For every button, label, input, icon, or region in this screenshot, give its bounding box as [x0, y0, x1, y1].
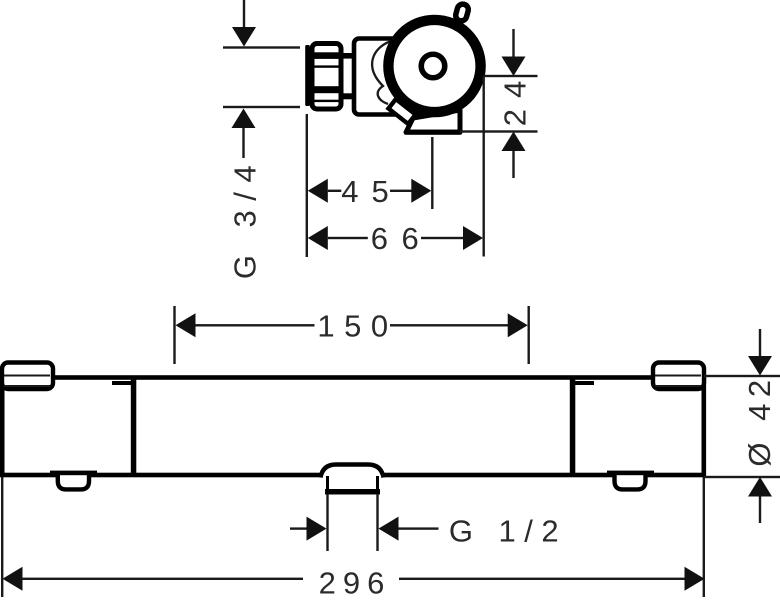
G1/2 stem right [399, 527, 439, 529]
dim 150 ext line left [173, 306, 175, 364]
right cap [653, 363, 704, 390]
outlet spout (side view) [406, 110, 460, 132]
dim 45 arrow right [411, 179, 431, 203]
ext line left of 45/66 [306, 114, 308, 257]
svg-text:296: 296 [319, 565, 392, 600]
outlet bottom thick edge [405, 130, 462, 135]
dial lever stub [454, 3, 469, 22]
dim 24 arrow up [502, 132, 526, 152]
dim 296 arrow right [685, 567, 705, 591]
svg-text:G 1/2: G 1/2 [449, 514, 567, 549]
dim 296 ext line left [1, 477, 3, 597]
bar body [2, 378, 704, 476]
dim 150 stem left [196, 324, 315, 326]
G1/2 ext line right [376, 494, 378, 551]
grip scallop curves [372, 41, 391, 104]
dim 24 stem bottom [512, 151, 514, 178]
ext line below outlet [431, 137, 433, 209]
dim G3/4 ext line top [223, 46, 300, 48]
dim G3/4 arrow down [232, 27, 256, 47]
outlet below box bottom [325, 489, 380, 495]
dim 45 arrow left [308, 179, 328, 203]
left divider [131, 377, 137, 475]
left cap [2, 363, 53, 390]
dim 66 stem left [328, 237, 368, 239]
dim 296 stem left [23, 578, 304, 580]
left foot [58, 471, 89, 489]
dim 66 arrow right [463, 226, 483, 250]
outlet below box left side [326, 476, 329, 490]
dim G3/4 stem bottom [242, 128, 244, 158]
bar bottom edge over left foot [50, 471, 97, 476]
svg-text:Ø 42: Ø 42 [742, 373, 777, 466]
union nut body [312, 44, 341, 110]
dim 150 ext line right [528, 306, 530, 364]
dim 296 stem right [399, 578, 685, 580]
G1/2 arrow right-pointing [307, 517, 327, 541]
union nut flange [305, 45, 310, 106]
nut-body stub bottom [344, 93, 354, 99]
stop tab [388, 99, 415, 124]
dim 150 arrow right [508, 313, 528, 337]
right foot [615, 471, 646, 489]
union nut thin line 1 [313, 65, 341, 67]
left cap inner line 2 [4, 385, 50, 387]
bar bottom edge over right foot [607, 471, 654, 476]
dim 296 ext line right [703, 477, 705, 597]
union nut band 2 [313, 86, 341, 93]
dim 150 stem right [390, 324, 509, 326]
dia42 top ext line [704, 375, 780, 377]
dim 150 arrow left [176, 313, 196, 337]
G1/2 ext line left [326, 494, 328, 551]
outlet dome stroke [321, 465, 384, 478]
dim 66 stem right [421, 237, 464, 239]
right divider [570, 377, 576, 475]
union nut band 1 [313, 52, 341, 59]
right cap inner line 1 [655, 375, 701, 377]
dia42 stem bottom [759, 497, 761, 524]
dim G3/4 stem top [243, 0, 245, 28]
G1/2 arrow left-pointing [379, 517, 399, 541]
outlet dome fill [320, 465, 384, 479]
dim 45 stem left [328, 190, 342, 192]
dial ring [388, 20, 480, 112]
dia42 bottom ext line [704, 476, 780, 478]
dim 24 arrow down [502, 57, 526, 77]
right cap inner line 2 [655, 385, 701, 387]
dim G3/4 ext line bottom [223, 106, 300, 108]
dim 45 stem right [390, 190, 412, 192]
dim 66 arrow left [308, 226, 328, 250]
dim 24 top ext line [484, 75, 538, 77]
svg-text:150: 150 [317, 308, 397, 343]
dim 24 stem top [512, 29, 514, 58]
left cap inner line 1 [4, 375, 50, 377]
left tick mark [112, 381, 131, 385]
dim G3/4 arrow up [232, 109, 256, 129]
dia42 stem top [759, 329, 761, 357]
dial hub [421, 54, 445, 78]
valve body [354, 39, 450, 115]
dia42 arrow up [748, 477, 772, 497]
dim 296 arrow left [3, 567, 23, 591]
union nut thin line 2 [313, 100, 341, 102]
G1/2 stem far left [290, 527, 307, 529]
ext line right for 66 [483, 76, 485, 257]
svg-text:G 3/4: G 3/4 [228, 156, 263, 279]
nut-body stub top [344, 53, 354, 59]
dim 24 bottom ext line [460, 130, 538, 132]
outlet below box fill [326, 476, 379, 491]
dia42 arrow down [748, 356, 772, 376]
outlet below box right side [376, 476, 379, 490]
right tick mark [575, 381, 594, 385]
svg-text:24: 24 [498, 70, 533, 126]
